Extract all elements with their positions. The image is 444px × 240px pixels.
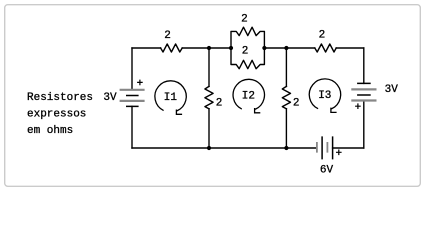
wire top rail between R1 and parallel box	[182, 47, 231, 49]
svg-text:2: 2	[241, 14, 248, 26]
wire bottom rail left of battery V3	[132, 147, 316, 149]
wire branch above resistor R2	[208, 48, 210, 86]
svg-text:2: 2	[319, 30, 326, 42]
wire branch below resistor R2	[208, 109, 210, 148]
wire branch above resistor R3	[285, 48, 287, 86]
resistor 2 (vertical between I2 and I3)	[282, 86, 290, 108]
wire top rail between box and R4	[264, 47, 314, 49]
svg-text:2: 2	[242, 46, 249, 58]
plus polarity mark (battery V2)	[355, 103, 361, 109]
wire right vertical below battery V2	[363, 101, 365, 149]
node junction top rail / R2 branch	[207, 46, 211, 50]
svg-text:3V: 3V	[385, 84, 399, 96]
wire top rail right segment	[336, 47, 364, 49]
resistor 2 (vertical between I1 and I2)	[205, 86, 213, 108]
mesh current I1 (circle arrow)	[155, 81, 186, 114]
resistor 2 (parallel top)	[231, 27, 264, 48]
svg-text:2: 2	[216, 98, 223, 110]
resistor 2 (top left)	[161, 44, 183, 52]
mesh current I3 (circle arrow)	[309, 79, 340, 113]
wire top rail left segment	[132, 47, 161, 49]
battery V1 3V (left)	[120, 90, 145, 107]
resistor 2 (top right)	[315, 44, 336, 52]
node junction bottom rail / R3 branch	[284, 146, 288, 150]
plus polarity mark (battery V3)	[336, 150, 342, 156]
note text "Resistores expressos em ohms"	[27, 92, 93, 137]
wire left vertical below battery V1	[131, 106, 133, 148]
wire bottom rail right of battery V3	[333, 147, 364, 149]
wire left vertical above battery V1	[131, 48, 133, 90]
svg-text:I3: I3	[318, 90, 331, 102]
wire branch below resistor R3	[285, 109, 287, 148]
battery V2 3V (right)	[351, 83, 376, 100]
svg-text:I1: I1	[164, 92, 178, 104]
svg-text:2: 2	[164, 30, 171, 42]
node junction bottom rail / R2 branch	[207, 146, 211, 150]
svg-text:Resistores: Resistores	[27, 92, 93, 104]
resistor 2 (parallel bottom)	[231, 48, 264, 69]
plus polarity mark (battery V1)	[137, 80, 143, 86]
node junction top rail / R3 branch	[284, 46, 288, 50]
svg-text:em ohms: em ohms	[27, 125, 73, 137]
node junction parallel box right terminal	[262, 46, 266, 50]
battery V3 6V (bottom)	[317, 136, 333, 159]
svg-text:expressos: expressos	[27, 109, 86, 121]
mesh current I2 (circle arrow)	[233, 79, 264, 112]
wire right vertical above battery V2	[363, 48, 365, 83]
svg-text:I2: I2	[242, 90, 255, 102]
svg-text:2: 2	[293, 98, 300, 110]
svg-text:3V: 3V	[103, 92, 117, 104]
svg-text:6V: 6V	[320, 164, 334, 176]
node junction parallel box left terminal	[229, 46, 233, 50]
